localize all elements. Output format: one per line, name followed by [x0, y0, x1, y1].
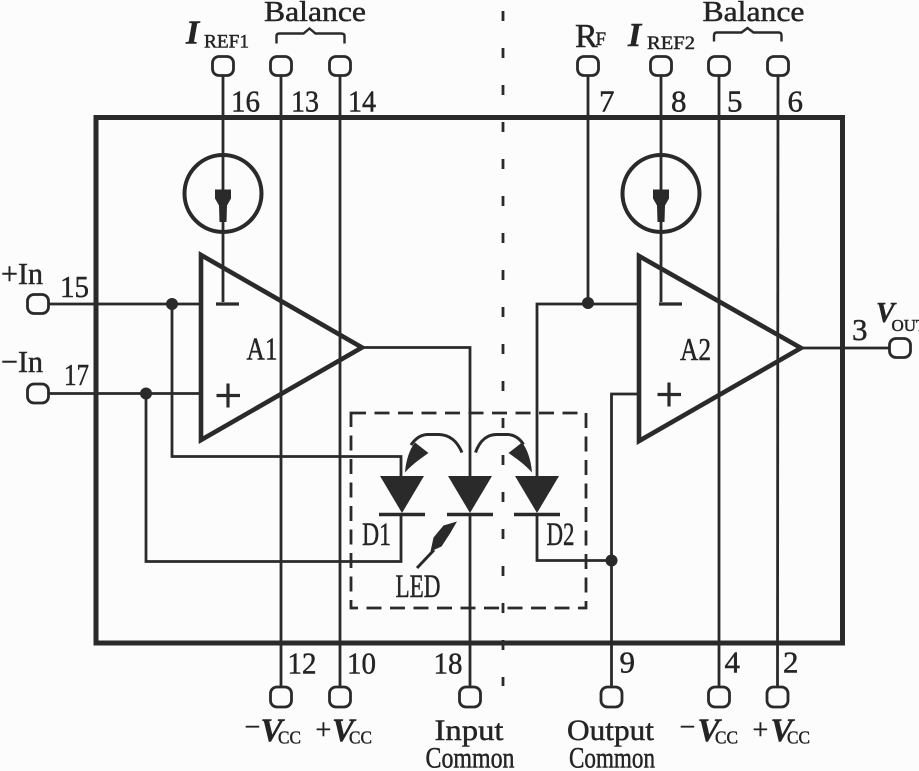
svg-text:9: 9 — [620, 645, 636, 680]
svg-text:D2: D2 — [547, 517, 575, 553]
bracket Balance right — [714, 28, 782, 42]
svg-text:16: 16 — [231, 84, 260, 119]
photodiode D2 — [514, 476, 560, 515]
wire LED cathode to pin 18 — [469, 513, 472, 687]
terminal pin 6 — [768, 57, 789, 76]
terminal pin 5 — [709, 57, 730, 76]
svg-text:−: − — [680, 712, 696, 743]
wire -In to A1 non-inverting input — [49, 392, 202, 395]
svg-text:4: 4 — [725, 645, 741, 680]
IC package outline — [96, 118, 843, 644]
optical coupling dashed box — [351, 413, 586, 608]
terminal pin 7 — [578, 57, 599, 76]
terminal pin 13 — [271, 57, 292, 76]
svg-text:5: 5 — [727, 84, 743, 119]
svg-text:Common: Common — [426, 742, 515, 771]
svg-text:+: + — [316, 715, 332, 746]
svg-text:−: − — [245, 712, 261, 743]
wire pin14 to pin10 — [339, 76, 342, 688]
svg-text:CC: CC — [787, 728, 810, 748]
svg-text:+: + — [753, 715, 769, 746]
node junction RF on A2 inverting wire — [582, 297, 594, 309]
wire A2 non-inverting input down — [612, 394, 640, 561]
current source CS2 — [623, 155, 700, 232]
svg-text:7: 7 — [599, 84, 615, 119]
svg-text:CC: CC — [349, 728, 372, 748]
wire pin7 RF to A2 inverting node — [587, 76, 590, 305]
svg-text:LED: LED — [396, 569, 441, 605]
terminal pin 18 — [460, 687, 481, 707]
terminal pin 16 — [213, 57, 234, 76]
diode LED — [447, 476, 493, 515]
svg-text:17: 17 — [64, 357, 89, 392]
node junction output common — [606, 555, 618, 567]
light arrow to D1 — [405, 435, 462, 473]
terminal -In pin 17 — [28, 384, 49, 403]
svg-text:REF1: REF1 — [204, 32, 249, 53]
svg-text:A1: A1 — [247, 331, 278, 367]
node junction on -In wire — [140, 388, 152, 400]
node junction on +In wire — [166, 298, 178, 310]
LED pointer arrow — [417, 522, 457, 569]
wire node to pin 9 — [610, 561, 613, 688]
wire A1 inverting node to D1 anode — [172, 304, 401, 476]
terminal pin 8 — [651, 57, 672, 76]
svg-text:13: 13 — [291, 84, 319, 119]
wire pin13 to pin12 — [280, 76, 283, 688]
svg-text:I: I — [627, 17, 643, 54]
wire pin6 to pin2 — [776, 76, 779, 688]
wire A2 output to pin 3 — [801, 347, 890, 350]
svg-text:A2: A2 — [680, 331, 711, 367]
isolation barrier dashed line — [502, 11, 505, 686]
svg-text:3: 3 — [852, 312, 868, 347]
svg-text:10: 10 — [347, 646, 376, 681]
svg-text:CC: CC — [715, 728, 738, 748]
terminal pin 4 — [709, 687, 730, 707]
terminal pin 12 — [271, 687, 292, 707]
svg-text:15: 15 — [60, 269, 89, 304]
wire D2 cathode to output common node — [537, 513, 612, 561]
svg-text:8: 8 — [671, 84, 687, 119]
photodiode D1 — [379, 476, 425, 515]
svg-text:−In: −In — [1, 344, 43, 379]
wire +In to A1 inverting input — [49, 303, 202, 306]
wire A1 non-inverting node to D1 cathode — [146, 394, 401, 562]
terminal pin 9 — [601, 687, 622, 707]
svg-text:2: 2 — [783, 645, 799, 680]
op-amp A1 — [201, 255, 362, 440]
bracket Balance left — [277, 29, 345, 44]
svg-text:CC: CC — [278, 728, 301, 748]
terminal pin 2 — [767, 687, 788, 707]
svg-text:Balance: Balance — [264, 0, 366, 28]
svg-text:+In: +In — [1, 256, 43, 291]
svg-text:6: 6 — [788, 84, 804, 119]
terminal +In pin 15 — [28, 295, 49, 314]
svg-text:Balance: Balance — [703, 0, 805, 28]
svg-text:18: 18 — [434, 646, 463, 681]
light arrow to D2 — [476, 435, 533, 473]
svg-text:14: 14 — [348, 84, 376, 119]
terminal pin 14 — [330, 57, 351, 76]
wire A1 output to LED anode — [362, 348, 470, 477]
current source CS1 — [185, 155, 262, 232]
terminal Vout pin 3 — [890, 339, 911, 358]
svg-text:D1: D1 — [362, 517, 391, 553]
wire pin16 to current source CS1 and A1 inverting input — [222, 76, 225, 303]
svg-text:12: 12 — [288, 646, 317, 681]
svg-text:Common: Common — [569, 742, 655, 771]
op-amp A2 — [639, 256, 801, 441]
svg-text:REF2: REF2 — [647, 33, 695, 54]
wire pin8 to current source CS2 and A2 inverting input — [660, 76, 663, 303]
terminal pin 10 — [330, 687, 351, 707]
svg-text:F: F — [596, 29, 607, 50]
svg-text:I: I — [185, 15, 201, 52]
svg-text:OUT: OUT — [892, 316, 919, 335]
wire pin5 to pin4 — [718, 76, 721, 688]
wire A2 inverting input to D2 anode — [537, 304, 639, 476]
